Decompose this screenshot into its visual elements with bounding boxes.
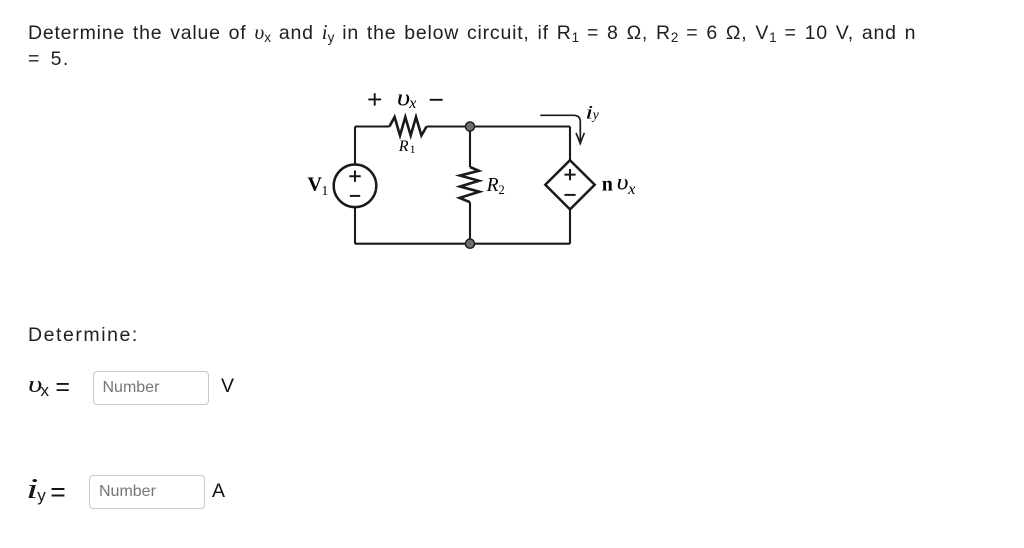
svg-text:x: x [408, 95, 416, 112]
svg-text:υ: υ [397, 84, 410, 111]
svg-text:R: R [486, 175, 499, 196]
svg-text:2: 2 [499, 183, 505, 197]
svg-text:V: V [308, 174, 323, 196]
svg-text:n: n [602, 173, 613, 195]
svg-text:1: 1 [322, 183, 329, 198]
svg-text:1: 1 [410, 144, 416, 156]
svg-text:υ: υ [617, 170, 629, 195]
svg-text:x: x [627, 181, 635, 198]
svg-text:y: y [591, 107, 599, 122]
svg-text:R: R [398, 138, 409, 155]
